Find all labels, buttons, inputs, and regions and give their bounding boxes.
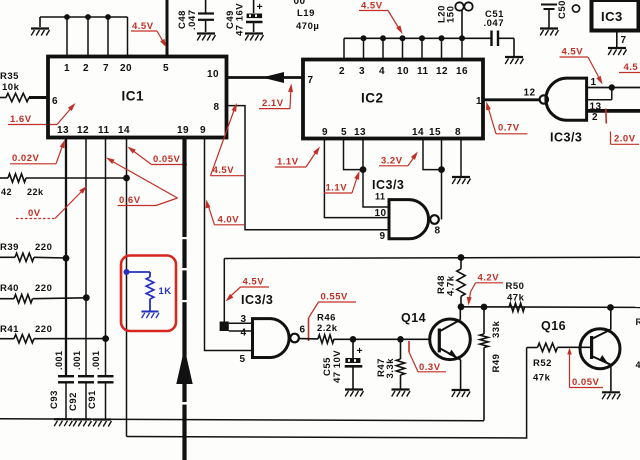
IC IC1 box [48,57,227,138]
junction square pad gate pins 3-4 [220,322,229,332]
svg-text:12: 12 [524,88,536,99]
voltage label 4.5V at IC1 pin 5 [131,21,167,48]
resistor R42 [0,174,127,182]
capacitor C93 name [49,390,60,409]
svg-text:9: 9 [322,127,328,138]
IC1 pin label 10 [207,69,219,80]
capacitor C55 (electrolytic) [345,339,363,388]
capacitor C92 [78,376,94,418]
signal-flow arrowhead up on pin19 line [176,348,192,384]
gate pin label 1 [591,77,597,88]
svg-text:8: 8 [435,226,441,237]
svg-text:47k: 47k [533,373,551,384]
resistor R52 [527,343,592,351]
resistor R48 [457,258,465,307]
capacitor C91 [98,376,114,418]
gate input label 12 [524,88,536,99]
junction dot R40 to pin12 wire [83,294,90,301]
voltage label 0.6V at IC1 pin11 [106,158,178,207]
resistor R49 labels [491,320,502,372]
IC1 pin label 5 [163,63,169,74]
svg-text:.047: .047 [484,18,505,29]
IC1 pin label 13 [57,125,69,136]
ground hatch under C93 [54,419,73,426]
wire riser IC1 pin 1 [66,17,68,57]
wire gate pin 1 [587,87,640,89]
ground hatch under C92 [73,419,92,426]
capacitor C51 [492,31,515,57]
capacitor C48 [198,0,214,32]
wire IC2 pin9 down and right to gate pin10 [324,139,389,218]
junction dot bus pin10 [400,35,406,41]
svg-text:4.5V: 4.5V [243,277,265,288]
junction dot R41 to pin11 wire [102,335,109,342]
wire IC1 pin 13 down [65,137,67,376]
svg-text:C50: C50 [557,0,568,19]
capacitor C93 label .001 [54,350,64,370]
svg-text:+: + [357,345,364,357]
ground hatch under C91 [93,420,112,427]
svg-text:+: + [257,1,264,13]
resistor R40 [0,295,86,303]
capacitor C49 (electrolytic) [246,0,263,32]
svg-text:R50: R50 [506,281,525,292]
wire IC1 pin 12 down [85,137,87,376]
blue label 1K [159,286,172,297]
svg-text:IC2: IC2 [361,91,384,106]
svg-text:1.6V: 1.6V [10,114,32,125]
capacitor C93 [58,376,74,418]
svg-text:4.5: 4.5 [624,62,639,73]
wire 4.5V rail [224,257,640,258]
wire IC2 pin1 to gate [483,98,540,101]
wire IC2 pin13 down to gate pin11 [363,139,389,208]
resistor R48 labels [436,275,457,296]
IC2 pin label 10 [397,66,409,77]
transistor Q14 [430,307,471,389]
ground G1 top-left [31,29,50,36]
svg-text:R41: R41 [0,324,19,335]
wire gate pin 2 (thick) [587,109,640,113]
svg-text:11: 11 [375,192,386,202]
resistor R50 labels [506,281,525,304]
resistor R47 [396,342,404,389]
junction dot Q16 collector [607,304,614,311]
svg-text:8: 8 [214,102,220,113]
IC2 pin label 8 [455,127,461,138]
voltage label 0.7V at IC2 pin1 [486,102,527,134]
wire gate pin 3 stub [229,322,253,324]
resistor R39 labels [0,242,52,253]
voltage label 0.05V at Q16 base [567,348,603,389]
ground under Q14 emitter [452,390,471,397]
wire riser IC2 pin 4 [382,38,384,60]
ground under C49 [245,34,264,41]
svg-text:13: 13 [354,127,366,138]
svg-text:6: 6 [300,325,306,336]
gate pin label 9 [380,231,386,242]
transistor Q16 label [541,319,566,333]
wire rail corner down to gate pad [223,259,225,324]
svg-text:7: 7 [308,75,314,86]
svg-text:10: 10 [375,208,387,219]
voltage label 1.1V at IC2 pin9 [275,147,320,168]
IC IC3 box [592,0,639,31]
voltage label 4.0V at IC1 pin9 [206,200,244,226]
svg-text:4: 4 [241,328,247,339]
svg-text:1.1V: 1.1V [326,183,348,194]
svg-text:10k: 10k [2,82,20,93]
gate pin label 6 [300,325,306,336]
IC2 pin label 2 [339,66,345,77]
voltage label 4.2V at R48 node [467,273,503,306]
svg-text:4.2V: 4.2V [478,273,500,284]
resistor R49 [480,307,488,421]
wire IC1 pin10 to IC2 pin7 [226,76,303,79]
IC1 pin label 8 [214,102,220,113]
gate pin label 2 [592,112,598,123]
resistor R35 [0,93,48,101]
svg-text:0.05V: 0.05V [572,377,599,388]
svg-text:Q16: Q16 [541,319,566,333]
IC1 pin label 14 [118,125,130,136]
junction dot R48 bottom [458,303,465,310]
wire R46 to Q14 base [334,338,431,340]
svg-text:7: 7 [621,35,627,46]
IC2 pin label 14 [412,127,424,138]
svg-text:4.5V: 4.5V [562,47,584,58]
svg-text:14: 14 [118,125,130,136]
svg-text:13: 13 [590,102,602,113]
svg-text:5: 5 [240,354,246,365]
svg-text:L19: L19 [297,8,315,19]
resistor R50 [509,303,525,311]
IC2 name [361,91,384,106]
voltage label 0V at IC1 pin12 [16,186,87,219]
svg-text:0.55V: 0.55V [321,292,348,303]
svg-text:2.1V: 2.1V [262,98,284,109]
resistor R46 [318,335,334,343]
svg-text:220: 220 [35,324,52,335]
wire riser IC2 pin 2 [343,38,345,60]
voltage label 0.3V at Q14 base [409,341,446,373]
svg-text:1.1V: 1.1V [277,157,299,168]
voltage label 4.5V at lower gate [226,277,270,302]
gate pin label 4 [241,328,247,339]
resistor R42 labels [1,187,44,197]
IC1 pin label 9 [200,125,206,136]
junction dot bus pin4 [380,35,386,41]
junction dot bus pin12 [439,35,445,41]
NAND gate U-mid body [389,200,439,239]
junction dot bus pin16 [459,35,465,41]
resistor R35 label [0,71,20,93]
IC2 pin label 12 [436,66,448,77]
svg-text:20: 20 [120,63,132,74]
blue ground under 1K [141,312,159,319]
gate pin label 10 [375,208,387,219]
IC2 pin label 11 [417,66,429,77]
capacitor C50 label [557,0,580,19]
ground stem top-left [39,17,41,27]
svg-text:IC3/3: IC3/3 [550,131,582,145]
svg-text:R40: R40 [0,283,19,294]
wire IC2 pin5 down [344,139,364,170]
wire riser IC2 pin 11 [421,38,423,60]
svg-text:3: 3 [359,66,365,77]
wire IC1 pin8 right then down [226,106,389,230]
svg-text:11: 11 [417,66,429,77]
IC1 pin label 2 [83,63,89,74]
voltage label 4.5 right edge [619,62,640,73]
gate IC3/3 (pins 11,10,9 -> 8) label [372,178,404,192]
svg-text:3: 3 [241,314,247,325]
svg-text:0.7V: 0.7V [498,123,520,134]
svg-text:15: 15 [429,127,441,138]
gate pin label 11 [375,192,386,202]
svg-text:12: 12 [77,125,89,136]
svg-text:IC3/3: IC3/3 [241,293,273,307]
wire IC2 pin8 to ground [460,139,462,177]
svg-text:7: 7 [103,63,109,74]
capacitor C55 labels [322,350,343,383]
IC3 pin label 7 [621,35,627,46]
resistor R39 [0,253,66,261]
voltage label 3.2V at IC2 pin14 [379,152,418,167]
wire collector rail right [461,306,640,309]
IC1 pin label 1 [64,63,70,74]
svg-text:IC3: IC3 [601,9,623,24]
svg-text:47 16V: 47 16V [235,3,246,36]
svg-text:R35: R35 [0,71,19,82]
wire riser IC2 pin 3 [363,38,365,60]
voltage label 0.55V at gate output [309,292,357,342]
junction dot R39 to pin13 wire [63,255,70,262]
IC1 pin label 7 [103,63,109,74]
IC3 name [601,9,623,24]
voltage label 4.5V at IC2 bus [359,1,403,35]
IC2 pin label 3 [359,66,365,77]
svg-text:13: 13 [57,125,69,136]
signal-flow arrow on wire (points left) [262,72,284,83]
svg-text:42: 42 [1,187,12,197]
svg-text:4: 4 [636,360,640,370]
resistor R52 labels [533,358,552,384]
capacitor C49 plus sign [257,1,264,13]
inductor L20 [455,2,472,38]
voltage label 2.1V at IC2 pin7 [259,84,293,110]
svg-text:4.5V: 4.5V [132,21,154,32]
junction dot pin1/pin13 [609,84,615,90]
IC2 pin label 4 [379,66,385,77]
voltage label 0.05V at IC1 pin14 [128,147,188,166]
svg-text:6: 6 [52,96,58,107]
junction dot R49 top [481,304,488,311]
svg-text:2.2k: 2.2k [317,323,338,334]
svg-text:11: 11 [98,125,110,136]
gate pin label 3 [241,314,247,325]
transistor Q14 label [401,311,426,325]
IC2 pin label 9 [322,127,328,138]
capacitor C92 label .001 [72,350,82,370]
ground under C55 [345,390,364,397]
junction dot pins 14/15 [438,166,445,173]
svg-text:9: 9 [380,231,386,242]
svg-text:3.2V: 3.2V [381,156,403,167]
wire riser IC1 pin 20 [127,17,129,57]
svg-text:470µ: 470µ [296,21,319,32]
svg-text:4: 4 [379,66,385,77]
wire riser IC2 pin 12 [441,38,443,60]
voltage label 1.6V at IC1 pin 6 [8,103,76,125]
voltage label 2.0V at gate pin2 [606,109,639,145]
wire IC1 pin 14 down [126,137,128,437]
wire riser IC1 pin 7 [107,17,109,57]
capacitor C49 labels [225,3,246,36]
junction dot pin2 riser [85,14,91,20]
capacitor C91 label .001 [91,350,101,370]
resistor R47 labels [376,358,396,379]
svg-text:2.0V: 2.0V [614,134,636,145]
junction dot C55 tap [350,336,357,343]
IC2 pin label 15 [429,127,441,138]
svg-text:R46: R46 [317,313,336,324]
IC1 pin label 20 [120,63,132,74]
svg-text:.001: .001 [54,350,64,370]
wire riser IC2 pin 16 [461,38,463,60]
voltage label 0.02V at IC1 pin13 [10,140,65,165]
svg-text:22k: 22k [27,187,44,197]
wire IC2 top bus [344,37,491,39]
svg-text:220: 220 [35,242,52,253]
ground under C48 [197,34,216,41]
svg-text:10: 10 [397,66,409,77]
IC1 name [122,89,145,104]
NAND gate U-low body [253,319,299,358]
resistor R46 labels [317,313,338,335]
svg-text:IC3/3: IC3/3 [372,178,404,192]
blue resistor 1K [146,277,154,311]
junction dot pins 5/13 [360,166,367,173]
svg-text:0V: 0V [28,208,41,219]
junction dot bus pin3 [361,35,367,41]
svg-text:C93: C93 [49,390,60,409]
IC2 pin label 1 [476,96,482,107]
capacitor C48 labels [177,10,198,31]
wire riser IC1 pin 2 [87,17,89,57]
capacitor C91 name [87,390,98,409]
junction dot R47 tap [397,336,404,343]
NAND gate U-right body (mirrored) [540,78,587,120]
wire top ground bus to IC1 pins 1,2,7,20 [40,16,128,18]
junction dot bus pin11 [419,35,425,41]
IC1 pin label 6 [52,96,58,107]
svg-text:5: 5 [163,63,169,74]
junction dot pin7 riser [105,14,111,20]
wire IC1 pin 11 down [105,137,107,376]
svg-text:16: 16 [456,66,468,77]
svg-text:2: 2 [83,63,89,74]
svg-text:R39: R39 [0,242,19,253]
ground under IC3 pin 7 [608,48,627,55]
capacitor C51 labels [484,9,505,29]
IC1 pin label 19 [177,125,189,136]
IC2 pin label 13 [354,127,366,138]
svg-text:2: 2 [592,112,598,123]
svg-text:33k: 33k [491,320,502,338]
transistor Q16 [580,308,620,392]
svg-text:1: 1 [591,77,597,88]
svg-text:3.3k: 3.3k [385,358,396,379]
svg-text:00: 00 [294,0,306,7]
gate pin label 5 [240,354,246,365]
svg-text:8: 8 [455,127,461,138]
wire gate output to R46 [299,338,318,340]
IC2 pin label 5 [341,127,347,138]
wire IC1 pin 19 thick signal line [182,137,186,460]
svg-text:1: 1 [476,96,482,107]
wire IC3 pin 7 to ground [616,31,618,48]
IC IC2 box [303,60,483,139]
svg-text:Q14: Q14 [401,311,426,325]
svg-text:4.7k: 4.7k [446,275,457,296]
gate pin label 8 [435,226,441,237]
svg-text:0.6V: 0.6V [119,195,141,206]
voltage label 1.1V at IC2 pin13 [324,171,360,194]
junction dot R42 to pin14 wire [123,175,130,182]
gate IC3/3 (pins 3,4,5 -> 6) label [241,293,273,307]
svg-text:.001: .001 [91,350,101,370]
svg-text:220: 220 [35,283,52,294]
clipped text right edge upper [636,317,640,327]
voltage label 4.5V at gate pin1 [560,47,603,85]
svg-text:1K: 1K [159,286,172,297]
ground under R47 [392,390,411,397]
svg-text:.047: .047 [187,10,198,31]
svg-text:.001: .001 [72,350,82,370]
highlight box (red) around 1K note [121,256,176,332]
gate pin label 13 [590,102,602,113]
capacitor C55 plus sign [357,345,364,357]
ground under Q16 emitter [602,392,621,399]
svg-text:2: 2 [339,66,345,77]
wire riser IC2 pin 10 [402,38,404,60]
wire pin13 tie [587,88,612,100]
resistor R41 labels [0,324,52,335]
IC1 pin label 11 [98,125,110,136]
svg-text:4.0V: 4.0V [218,215,240,226]
svg-text:0.3V: 0.3V [419,362,441,373]
inductor L19 label [296,8,319,32]
gap artifacts on pin19 line [182,237,187,405]
IC1 pin label 12 [77,125,89,136]
svg-text:1: 1 [64,63,70,74]
svg-text:C92: C92 [68,392,79,411]
svg-text:10: 10 [207,69,219,80]
junction dot R48 top [458,254,465,261]
svg-text:4.5V: 4.5V [361,1,383,12]
svg-text:9: 9 [200,125,206,136]
capacitor C92 name [68,392,79,411]
svg-text:C91: C91 [87,390,98,409]
svg-text:IC1: IC1 [122,89,145,104]
wire gate pin 4 stub [229,330,253,332]
blue junction dot on pin14 wire [124,269,130,275]
capacitor C50 [541,5,557,28]
svg-text:5: 5 [341,127,347,138]
wire IC2 pin15 down to gate output [441,139,443,220]
svg-text:R52: R52 [533,358,552,369]
